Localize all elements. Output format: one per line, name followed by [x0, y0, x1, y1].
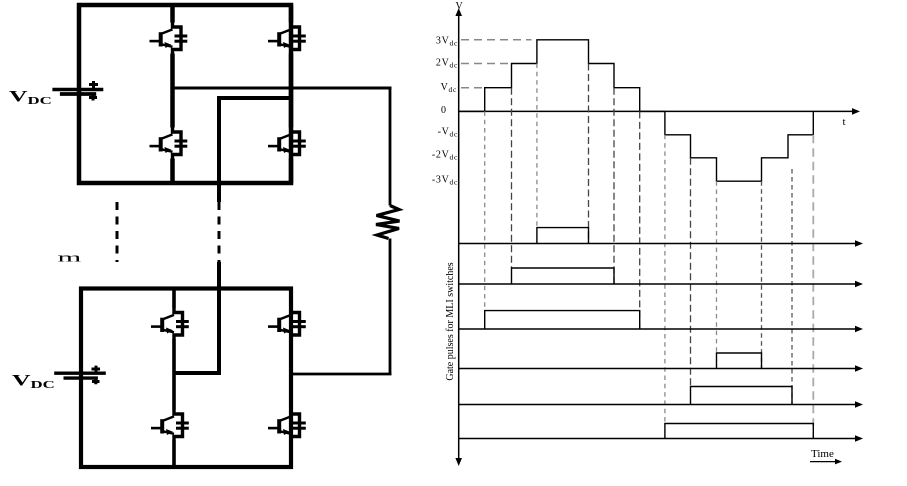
svg-text:m: m [58, 250, 82, 264]
dashed timing line x=716.5 [716, 181, 718, 353]
wire: chain into bridge m [174, 262, 219, 373]
dashed timing line x=484.7 [484, 111, 486, 310]
load resistor R [376, 206, 400, 239]
wire: bridge1 output A to load [173, 87, 392, 90]
dashed timing line x=813.3 [812, 135, 814, 426]
gate pulse row 4 axis [459, 368, 859, 370]
dashed timing line x=761.5 [761, 181, 763, 368]
battery VDCm polarity marks [92, 366, 101, 373]
H-bridge m right leg wire [289, 289, 293, 468]
svg-text:VDC: VDC [12, 371, 55, 391]
gate pulse row 5 pulse [691, 387, 793, 405]
transistor S4 [268, 127, 306, 159]
dashed timing line x=588.5 [588, 64, 590, 244]
dashed timing line x=792 [791, 169, 793, 405]
time arrow under Time label [810, 461, 838, 463]
dashed timing line x=536.9 [536, 64, 538, 228]
wire: bridge m output to load bottom [291, 239, 392, 375]
ellipsis dashed line [116, 202, 119, 262]
wire: bridge1 output B to chain [219, 98, 291, 202]
battery VDCm plates [54, 372, 106, 375]
svg-text:Vdc: Vdc [441, 82, 457, 94]
svg-text:t: t [843, 116, 846, 128]
battery VDC1 polarity marks [89, 81, 98, 88]
gate pulse row 6 pulse [665, 424, 813, 439]
dashed timing line x=639.7 [639, 111, 641, 329]
H-bridge m outer frame [81, 289, 291, 468]
svg-text:0: 0 [441, 105, 446, 116]
transistor Sm1 [151, 308, 189, 340]
svg-text:-Vdc: -Vdc [438, 127, 458, 139]
H-bridge 1 right leg wire [289, 5, 294, 183]
gate pulse row 2 axis [459, 283, 859, 285]
gate pulse row 3 axis [459, 328, 859, 330]
gate pulse row 2 pulse [512, 268, 615, 284]
dashed timing line x=614 [613, 88, 615, 284]
transistor S1 [150, 22, 188, 54]
transistor S2 [268, 22, 306, 54]
gate pulse row 1 axis [459, 243, 859, 245]
dashed level guide 2Vdc [461, 63, 509, 65]
dashed level guide 3Vdc [461, 39, 532, 41]
svg-text:Time: Time [811, 448, 834, 460]
transistor S3 [150, 127, 188, 159]
t axis [459, 110, 856, 112]
V axis [458, 14, 460, 461]
svg-text:-2Vdc: -2Vdc [432, 150, 458, 162]
gate pulse row 1 pulse [537, 228, 589, 244]
svg-text:2Vdc: 2Vdc [436, 58, 458, 70]
dashed timing line x=511.5 [511, 88, 513, 268]
gate pulse row 3 pulse [485, 311, 640, 329]
gate pulse row 6 axis [459, 438, 859, 440]
battery VDC1 plates [52, 88, 103, 91]
svg-text:Gate pulses for MLI switches: Gate pulses for MLI switches [445, 262, 456, 380]
chain dashed continuation [218, 202, 221, 262]
svg-text:V: V [456, 1, 464, 12]
dashed timing line x=664.9 [664, 135, 666, 424]
staircase output waveform [459, 40, 814, 181]
svg-text:-3Vdc: -3Vdc [432, 175, 458, 187]
H-bridge 1 outer frame [79, 5, 291, 183]
transistor Sm3 [151, 409, 189, 441]
transistor Sm2 [268, 308, 306, 340]
dashed timing line x=690.5 [690, 158, 692, 387]
wire: load right vertical down [389, 88, 392, 206]
dashed level guide Vdc [461, 87, 484, 89]
H-bridge m middle leg wire [172, 289, 176, 468]
gate pulse row 4 pulse [717, 353, 762, 369]
svg-text:VDC: VDC [9, 87, 52, 107]
H-bridge 1 middle leg wire [170, 5, 175, 183]
gate pulse row 5 axis [459, 404, 859, 406]
svg-text:3Vdc: 3Vdc [436, 36, 458, 48]
transistor Sm4 [268, 409, 306, 441]
